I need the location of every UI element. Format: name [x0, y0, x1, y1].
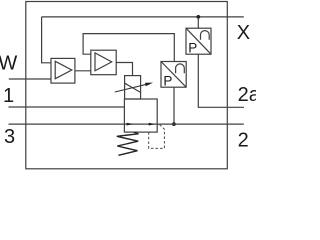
- wire: outer feedback loop left drop to amplifier A1: [42, 17, 51, 63]
- svg-text:P: P: [163, 74, 172, 89]
- wire: pilot port X line (feedback bus): [42, 16, 244, 18]
- wire: supply port 1 line: [9, 106, 125, 108]
- wire: sensor B1 down and out to port 2a: [198, 54, 244, 107]
- main valve body (pressure regulator): [124, 99, 157, 132]
- svg-text:X: X: [237, 22, 250, 44]
- wire: sensor B2 down to output line junction: [173, 87, 175, 124]
- amplifier A1 (comparator): [51, 58, 75, 83]
- wire: A1 output to A2: [75, 70, 91, 72]
- svg-text:2a: 2a: [238, 84, 256, 106]
- wire: setpoint input W: [9, 78, 51, 80]
- proportional pilot valve V1 (box with crossed throttle): [125, 76, 141, 99]
- wire: exhaust 3 to output 2 main line: [9, 123, 244, 125]
- return spring: [117, 132, 139, 155]
- pressure sensor B2 (P with flex diaphragm): [161, 62, 186, 88]
- svg-text:P: P: [188, 41, 197, 56]
- pilot feedback line (dashed): [149, 125, 165, 149]
- svg-text:3: 3: [4, 126, 15, 148]
- node: junction on output line: [172, 122, 176, 126]
- wire: inner feedback loop (top run): [83, 34, 174, 62]
- svg-text:2: 2: [238, 129, 249, 151]
- adjustment arrow of pilot valve: [115, 83, 153, 92]
- node: junction on X line: [196, 15, 200, 19]
- enclosure frame: [26, 2, 228, 169]
- flow arrow left inside valve body: [127, 123, 134, 126]
- flow arrow right inside valve body: [149, 123, 156, 126]
- wire: junction down to sensor B1: [197, 17, 199, 28]
- svg-text:1: 1: [3, 85, 14, 107]
- amplifier A2: [91, 50, 116, 74]
- pressure sensor B1 (P with flex diaphragm): [186, 28, 211, 54]
- svg-text:W: W: [0, 52, 17, 74]
- wire: A2 output to pilot valve: [116, 63, 132, 76]
